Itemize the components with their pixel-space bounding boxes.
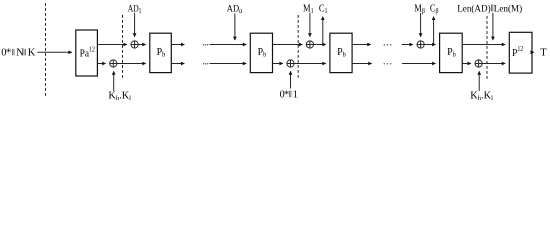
permutation box Pb3 bbox=[330, 33, 352, 72]
permutation box Pb4 bbox=[440, 33, 463, 72]
wire Kh.Kl arrow up into X2 bbox=[113, 71, 115, 91]
permutation box Pb1 bbox=[150, 33, 172, 72]
wire Pb3 bottom output bbox=[352, 63, 372, 65]
xor X5 (Mbeta into rate) bbox=[417, 41, 424, 48]
svg-text:Pa12: Pa12 bbox=[80, 46, 95, 60]
label Cbeta bbox=[430, 4, 439, 15]
wire Pb2 top output to XOR X3 bbox=[273, 44, 303, 46]
wire Pb4 top output to P12 bbox=[462, 44, 505, 46]
svg-text:Len(AD): Len(AD) bbox=[457, 3, 490, 14]
svg-text:Kh.Kl: Kh.Kl bbox=[108, 91, 131, 102]
xor X2 (key into capacity) bbox=[110, 60, 117, 67]
label Kh.Kl 2 bbox=[470, 91, 493, 102]
wire X2 to Pb1 bbox=[117, 63, 146, 65]
label M1 bbox=[303, 4, 314, 15]
wire C1 branch up bbox=[322, 17, 324, 45]
phase boundary dashed line 4 bbox=[486, 16, 488, 79]
node input label 0*||N||K bbox=[1, 47, 36, 59]
wire X4 to Pb3 bbox=[294, 63, 326, 65]
svg-text:Kh.Kl: Kh.Kl bbox=[470, 91, 493, 102]
label ADalpha bbox=[227, 3, 243, 15]
label T bbox=[540, 48, 547, 59]
wire X1 to Pb1 bbox=[138, 44, 146, 46]
permutation box Pb2 bbox=[250, 33, 272, 72]
wire tag output bbox=[532, 51, 534, 53]
phase boundary dashed line 3 bbox=[297, 15, 299, 79]
ellipsis dots top 1 bbox=[203, 44, 208, 45]
xor X3 (M1 into rate) bbox=[306, 41, 313, 48]
svg-text:Pb: Pb bbox=[337, 47, 346, 59]
wire Pb2 bottom output to XOR X4 bbox=[273, 63, 283, 65]
svg-text:Pb: Pb bbox=[447, 47, 456, 59]
phase boundary dashed line 2 bbox=[122, 15, 124, 79]
wire 0*||1 arrow up into X4 bbox=[290, 71, 292, 88]
wire ADalpha arrow down onto rate wire bbox=[234, 14, 236, 41]
wire Kh.Kl arrow up into X6 bbox=[478, 71, 480, 91]
wire X6 to P12 bbox=[482, 63, 505, 65]
ellipsis dots bottom 1 bbox=[203, 63, 208, 64]
svg-text:Len(M): Len(M) bbox=[494, 3, 522, 14]
wire Len arrow down onto rate wire bbox=[492, 13, 494, 40]
permutation box Pa12 bbox=[76, 30, 98, 76]
wire Pb1 top output bbox=[171, 44, 184, 46]
label C1 bbox=[319, 4, 328, 15]
xor X6 (key into capacity, finalization) bbox=[475, 60, 482, 67]
svg-text:ADα: ADα bbox=[227, 3, 243, 15]
svg-text:C1: C1 bbox=[319, 4, 328, 15]
svg-text:M1: M1 bbox=[303, 4, 314, 15]
label Len(AD)||Len(M) bbox=[457, 3, 522, 14]
wire Mbeta arrow down into X5 bbox=[420, 13, 422, 37]
wire M1 arrow down into X3 bbox=[309, 13, 311, 37]
wire bottom resumed to Pb2 bbox=[210, 63, 247, 65]
wire Pb1 bottom output bbox=[171, 63, 184, 65]
wire Pb4 bottom output to XOR X6 bbox=[462, 63, 471, 65]
wire Pa12 bottom output to XOR X2 bbox=[97, 63, 105, 65]
wire top resumed to Pb2 bbox=[210, 44, 247, 46]
svg-text:Pb: Pb bbox=[258, 47, 267, 59]
ellipsis dots top 2 bbox=[384, 44, 392, 45]
svg-text:0*NK: 0*NK bbox=[1, 47, 36, 59]
permutation box P12 bbox=[509, 32, 532, 73]
label 0*||1 bbox=[280, 89, 298, 100]
wire Pa12 top output to XOR X1 bbox=[97, 44, 127, 46]
wire top resumed to XOR X5 bbox=[402, 44, 413, 46]
wire Cbeta branch up bbox=[433, 17, 435, 45]
wire AD1 arrow down into X1 bbox=[134, 13, 136, 37]
wire input to Pa12 bbox=[38, 51, 72, 53]
wire bottom resumed to Pb4 bbox=[402, 63, 436, 65]
svg-text:Cβ: Cβ bbox=[430, 4, 439, 15]
wire X3 to Pb3 bbox=[314, 44, 326, 46]
xor X4 (domain separation 0*||1) bbox=[287, 60, 294, 67]
ellipsis dots bottom 2 bbox=[384, 63, 392, 64]
svg-text:Mβ: Mβ bbox=[414, 4, 425, 15]
svg-text:P12: P12 bbox=[512, 46, 523, 60]
label Mbeta bbox=[414, 4, 425, 15]
svg-text:0*1: 0*1 bbox=[280, 89, 298, 100]
label AD1 bbox=[128, 3, 142, 15]
label Kh.Kl 1 bbox=[108, 91, 131, 102]
phase boundary dashed line 1 bbox=[45, 3, 47, 98]
wire X5 to Pb4 bbox=[424, 44, 435, 46]
svg-text:Pb: Pb bbox=[157, 47, 166, 59]
wire Pb3 top output bbox=[352, 44, 371, 46]
svg-text:T: T bbox=[540, 48, 547, 59]
xor X1 (AD1 into rate) bbox=[131, 41, 138, 48]
